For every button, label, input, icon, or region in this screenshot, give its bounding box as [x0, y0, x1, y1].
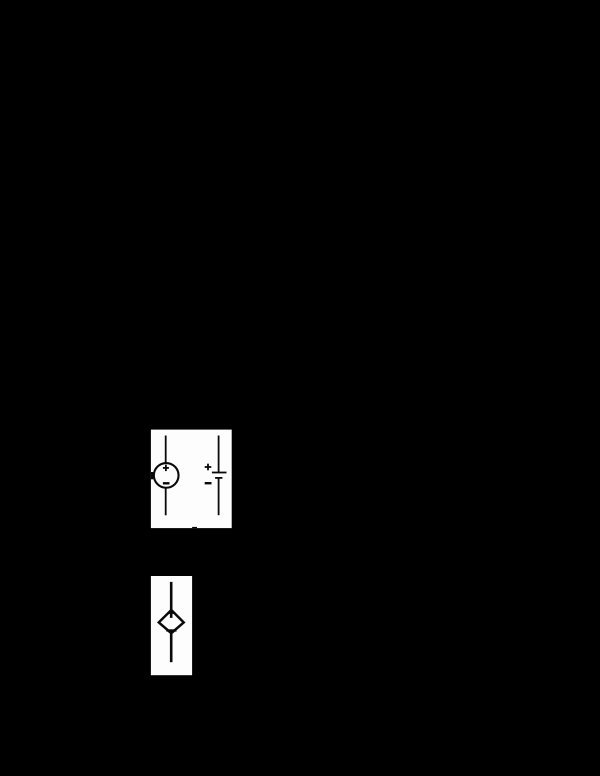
polarity label + (inside diamond)	[169, 612, 175, 614]
polarity label - (inside V1)	[163, 482, 170, 484]
polarity label - (inside diamond)	[166, 629, 176, 631]
polarity label + (at cell BT1)	[205, 464, 212, 471]
wire (bottom lead of cell BT1)	[218, 478, 220, 515]
cell BT1 negative plate (short bar)	[215, 477, 222, 479]
wire (top lead of cell BT1)	[218, 436, 220, 473]
voltage source V1 (circle symbol)	[154, 463, 179, 488]
wire stub (left tick at V1)	[151, 472, 153, 479]
caption remnant mark (bottom edge of panel 1)	[192, 527, 197, 528]
cell BT1 positive plate (long bar)	[212, 472, 227, 474]
polarity label + (inside V1)	[163, 465, 169, 471]
controlled voltage source (diamond symbol)	[159, 610, 184, 633]
wire (bottom lead of voltage source V1)	[165, 488, 167, 516]
wire (top lead of voltage source V1)	[165, 436, 167, 463]
wire (top lead of controlled source)	[170, 582, 173, 618]
figure panel 2: controlled voltage source symbol	[151, 576, 192, 675]
wire (bottom lead of controlled source)	[170, 633, 173, 663]
figure panel 1: independent voltage source and cell symbols	[151, 430, 232, 528]
polarity label - (at cell BT1)	[205, 482, 212, 484]
